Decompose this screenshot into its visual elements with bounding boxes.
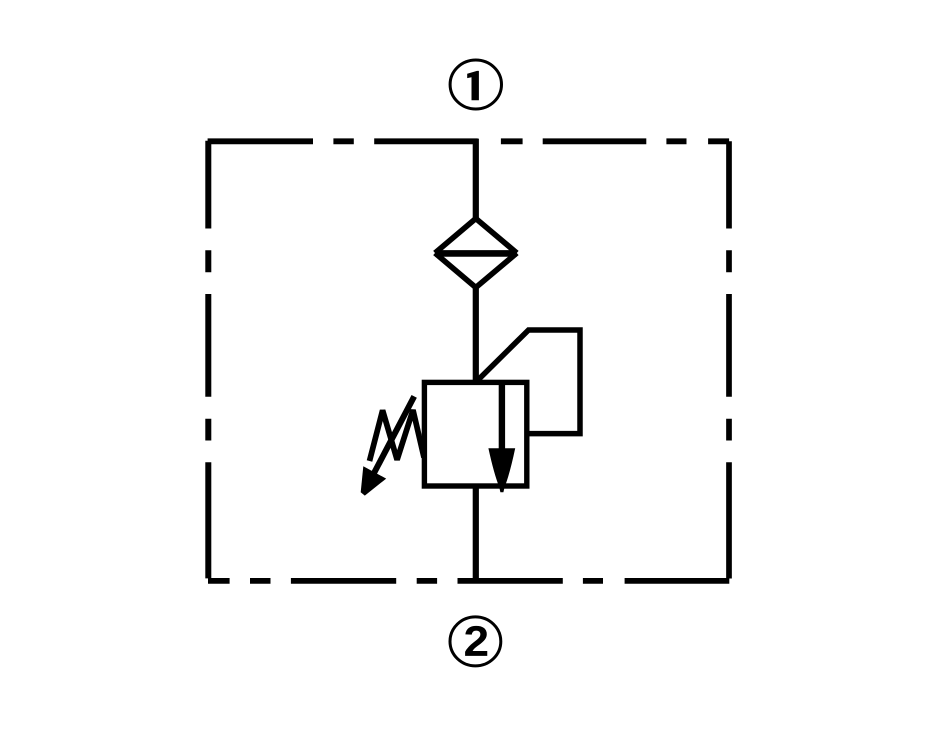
adjustment arrow shaft	[369, 396, 415, 483]
flow path arrow shaft	[499, 383, 505, 450]
relief valve body envelope	[424, 382, 526, 486]
wire: port 1 to filter	[473, 139, 479, 220]
port label 2 circle	[450, 617, 501, 666]
enclosure boundary right (dash-dot)	[726, 141, 732, 578]
enclosure boundary top (dash-dot)	[208, 138, 730, 144]
adjustable spring	[370, 410, 425, 461]
adjustment arrowhead	[361, 466, 387, 495]
port label 1 digit	[467, 71, 479, 100]
filter screen cross line	[435, 250, 517, 257]
wire: filter to valve	[473, 286, 479, 384]
port label 2 digit	[465, 626, 487, 656]
enclosure boundary bottom (dash-dot)	[208, 578, 729, 584]
wire: valve to port 2	[473, 485, 479, 584]
port label 1 circle	[450, 60, 501, 109]
filter screen diamond	[435, 219, 517, 288]
flow path arrowhead	[488, 448, 515, 492]
enclosure boundary left (dash-dot)	[205, 141, 211, 579]
pilot line loop	[477, 330, 580, 434]
